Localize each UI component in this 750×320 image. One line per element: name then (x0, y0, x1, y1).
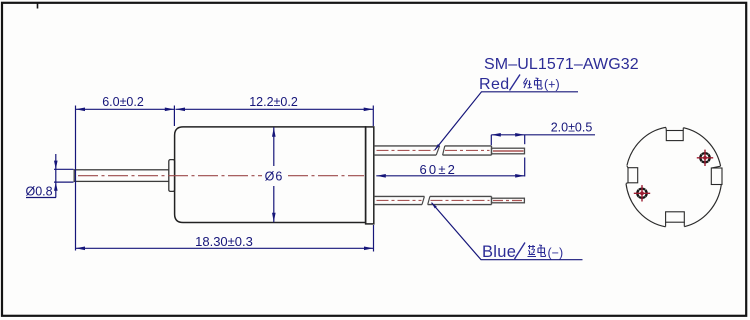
svg-text:18.30±0.3: 18.30±0.3 (195, 234, 253, 249)
svg-text:Ø6: Ø6 (265, 170, 284, 184)
solder terminal target (upper right) (697, 150, 713, 166)
red wire (top) stripped tip (492, 148, 525, 154)
shaft bushing (169, 160, 175, 192)
dimension 2.0±0.5 (stripped length) (491, 121, 595, 177)
blue wire (bottom) segment 2 (428, 196, 492, 204)
svg-text:60±2: 60±2 (419, 162, 457, 177)
hanzi 色 (538, 245, 546, 257)
svg-text:(+): (+) (544, 78, 560, 92)
end view left notch (626, 166, 638, 183)
solder terminal target (lower left) (634, 185, 650, 201)
blue wire (bottom) stripped tip (492, 198, 525, 203)
motor shaft (74, 170, 169, 182)
motor axis centerline (78, 175, 364, 177)
svg-text:2.0±0.5: 2.0±0.5 (551, 121, 593, 135)
dimension 60±2 (wire length) (376, 162, 524, 178)
leader for blue wire (432, 203, 583, 260)
blue wire (bottom) segment 1 (374, 196, 425, 204)
hanzi 蓝 (528, 245, 537, 257)
svg-text:12.2±0.2: 12.2±0.2 (249, 95, 298, 109)
dimension 18.30±0.3 (76, 225, 374, 252)
end view outline (circle with 4 notch gaps) (626, 127, 721, 226)
blue wire (bottom) centerline (377, 199, 490, 201)
end view bottom notch (666, 212, 685, 227)
end view top notch (666, 128, 683, 141)
svg-text:Ø0.8: Ø0.8 (26, 185, 53, 199)
label SM-UL1571-AWG32 (484, 56, 639, 73)
label Red/红色(+) (479, 75, 560, 93)
motor end cap (366, 127, 374, 224)
svg-text:SM–UL1571–AWG32: SM–UL1571–AWG32 (484, 56, 639, 73)
dimension 12.2±0.2 (176, 95, 374, 126)
hanzi 色 (535, 78, 543, 89)
svg-text:Red: Red (479, 76, 510, 93)
red wire (top) segment 2 (443, 146, 492, 155)
hanzi 红 (524, 78, 533, 88)
dimension Ø0.8 (shaft) (26, 154, 74, 199)
motor body (side view can) (175, 127, 366, 223)
red wire (top) segment 1 (374, 146, 440, 155)
svg-text:Blue: Blue (482, 243, 516, 261)
dimension 6.0±0.2 (76, 95, 175, 251)
svg-text:6.0±0.2: 6.0±0.2 (102, 95, 144, 109)
red wire (top) centerline (377, 149, 490, 151)
svg-text:(−): (−) (548, 246, 564, 260)
leader for red wire (435, 92, 578, 150)
label Blue/蓝色(−) (482, 243, 563, 262)
dimension Ø6 (body) (265, 127, 284, 222)
end view right notch (711, 166, 722, 184)
